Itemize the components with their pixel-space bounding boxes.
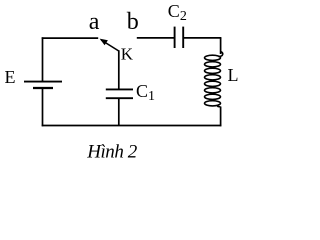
battery E long plate	[24, 81, 62, 83]
wire C2 to right corner	[183, 37, 221, 39]
inductor L coil loop 5	[205, 81, 221, 86]
inductor L top hook	[219, 52, 223, 57]
wire bottom horizontal	[42, 125, 222, 127]
inductor L coil loop 2	[205, 62, 221, 67]
wire top-left horizontal	[42, 37, 98, 39]
svg-text:L: L	[228, 65, 239, 85]
inductor L coil loop 4	[205, 75, 221, 80]
capacitor C2 left plate	[174, 27, 176, 48]
wire right vertical top	[220, 38, 222, 54]
wire left vertical upper	[42, 37, 44, 81]
wire middle vertical upper	[118, 50, 120, 89]
svg-text:b: b	[127, 9, 139, 35]
wire right vertical bottom	[220, 107, 222, 127]
capacitor C2 right plate	[182, 27, 184, 48]
svg-text:E: E	[5, 67, 16, 87]
svg-text:C2: C2	[168, 1, 187, 24]
svg-text:a: a	[89, 9, 100, 35]
wire b to C2	[137, 37, 175, 39]
switch K arm	[101, 40, 119, 51]
inductor L coil loop 3	[205, 68, 221, 73]
svg-text:C1: C1	[136, 81, 155, 104]
capacitor C1 top plate	[106, 88, 133, 90]
inductor L coil loop 6	[205, 88, 221, 93]
svg-text:K: K	[121, 45, 134, 64]
wire middle vertical lower	[118, 98, 120, 125]
capacitor C1 bottom plate	[106, 97, 133, 99]
inductor L coil loop 8	[205, 101, 221, 106]
inductor L coil loop 7	[205, 94, 221, 99]
battery E short plate	[33, 87, 53, 89]
inductor L bottom hook	[217, 105, 220, 107]
svg-text:Hình 2: Hình 2	[86, 142, 138, 163]
inductor L coil loop 1	[205, 55, 221, 60]
switch K arrowhead	[100, 39, 108, 46]
wire left vertical lower	[42, 89, 44, 127]
